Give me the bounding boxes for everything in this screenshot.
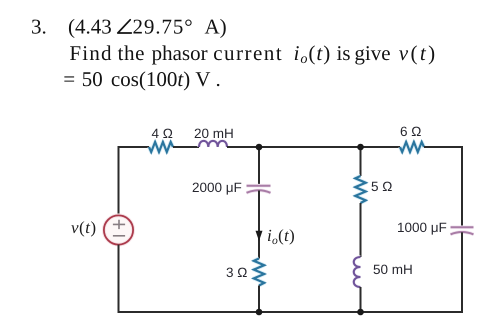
problem number 3.	[32, 20, 45, 34]
inductor L2 50 mH	[354, 257, 361, 287]
source plus sign	[113, 220, 125, 229]
wire top-left horizontal	[119, 146, 150, 148]
answer text 29.75 deg	[133, 20, 191, 34]
label 3 ohm	[227, 268, 247, 278]
node C junction dot	[256, 309, 263, 316]
label 4 ohm	[152, 129, 172, 138]
statement line2 io(t)	[295, 45, 330, 64]
resistor R1 4 ohm	[149, 142, 173, 152]
wire 20 mH to node A	[227, 146, 259, 148]
wire branch1 upper	[258, 147, 260, 185]
label 1000 uF	[398, 223, 446, 235]
wire between 4 ohm and 20 mH	[173, 146, 199, 148]
label 6 ohm	[401, 127, 421, 137]
voltage source v(t)	[104, 215, 133, 244]
wire node B to 6 ohm	[361, 146, 401, 148]
node A junction dot	[256, 144, 263, 151]
label 50 mH	[374, 265, 412, 275]
answer text (4.43	[69, 19, 111, 38]
resistor R4 5 ohm	[355, 176, 365, 203]
statement line3 50	[83, 72, 102, 86]
wire branch2 lower	[360, 287, 362, 312]
wire right vertical lower	[461, 232, 463, 313]
wire left vertical upper	[118, 146, 120, 216]
statement line2 word the	[118, 45, 144, 60]
statement line3 cos(100t)	[112, 71, 190, 90]
wire 6 ohm to top-right corner	[424, 146, 462, 148]
statement line2 word current	[214, 48, 282, 60]
statement line2 word give	[355, 46, 390, 64]
capacitor C2 1000 uF top plate	[451, 226, 474, 230]
wire node A to node B	[259, 146, 361, 148]
source minus sign	[113, 235, 125, 237]
current arrow head io	[256, 231, 263, 241]
wire left vertical lower	[118, 245, 120, 313]
capacitor C2 1000 uF bottom plate	[451, 232, 474, 234]
label 5 ohm	[372, 182, 392, 192]
label v(t)	[71, 221, 95, 236]
wire branch1 lower	[258, 286, 260, 313]
capacitor C1 2000 uF bottom plate	[247, 190, 271, 193]
answer text A paren	[205, 19, 226, 38]
resistor R2 6 ohm	[400, 142, 424, 152]
angle symbol in answer	[118, 20, 132, 33]
statement line2 v(t)	[399, 45, 434, 64]
statement line2 word phasor	[152, 45, 207, 64]
statement line2 word Find	[70, 45, 111, 60]
statement line3 V	[196, 72, 211, 86]
wire right vertical upper	[461, 146, 463, 227]
node B junction dot	[357, 144, 364, 151]
wire branch2 middle	[360, 203, 362, 257]
statement line3 period	[217, 84, 219, 86]
label 20 mH	[195, 129, 233, 139]
wire branch1 middle	[258, 191, 260, 259]
statement line2 word is	[337, 46, 350, 60]
statement line3 equals	[64, 76, 74, 81]
label io(t)	[268, 229, 294, 244]
wire branch2 upper	[360, 147, 362, 176]
node D junction dot	[357, 309, 364, 316]
resistor R3 3 ohm	[254, 259, 264, 286]
capacitor C1 2000 uF top plate	[247, 184, 271, 188]
wire bottom horizontal	[118, 311, 463, 313]
label 2000 uF	[193, 183, 242, 195]
inductor L1 20 mH	[199, 141, 227, 147]
